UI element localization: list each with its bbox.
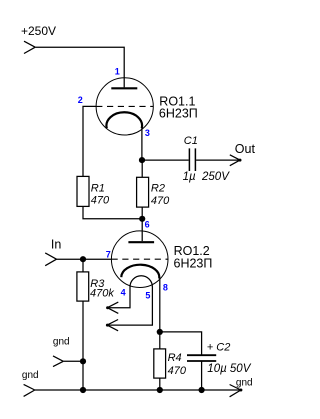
wire node3 to R2: [141, 160, 143, 177]
wire heater pin4 to arrow: [107, 287, 130, 308]
svg-text:C1: C1: [184, 135, 198, 147]
svg-text:4: 4: [121, 287, 126, 297]
capacitor C1: [189, 148, 195, 171]
cathode V1: [106, 112, 142, 128]
svg-text:gnd: gnd: [53, 336, 70, 347]
cathode V2: [121, 265, 159, 279]
wire R2 bottom to node 6: [141, 207, 143, 219]
resistor R3: [77, 272, 89, 301]
resistor R2: [137, 177, 149, 207]
svg-text:1: 1: [115, 66, 120, 76]
wire pin3 cathode down to node 3: [141, 128, 143, 161]
wire node8 to R4: [159, 332, 161, 349]
grid V1 (dashed): [96, 105, 153, 107]
svg-text:R2: R2: [151, 183, 165, 195]
wire node6 to V2 anode: [141, 219, 143, 241]
wire heater pin5 to arrow: [107, 287, 152, 326]
svg-text:+ C2: + C2: [207, 342, 231, 354]
svg-text:7: 7: [106, 250, 111, 260]
svg-text:2: 2: [78, 95, 83, 105]
svg-text:Out: Out: [235, 142, 256, 156]
wire In to V2 grid: [57, 258, 112, 260]
tube RO1.1 envelope: [96, 78, 153, 135]
svg-text:6Н23П: 6Н23П: [159, 107, 198, 121]
wire C2 bottom to rail: [201, 361, 203, 390]
wire gnd arrow to R3 column: [63, 360, 83, 362]
junction rail R3: [80, 387, 86, 393]
wire R3 bottom to ground rail: [82, 301, 84, 390]
svg-text:gnd: gnd: [22, 370, 39, 381]
heater arrow pin4: [107, 302, 118, 313]
svg-text:In: In: [51, 238, 61, 252]
gnd terminal right: [230, 385, 241, 397]
svg-text:5: 5: [145, 290, 150, 300]
node 6 junction: [139, 216, 145, 222]
svg-text:470k: 470k: [90, 288, 114, 300]
wire node to R3: [82, 259, 84, 272]
svg-text:+250V: +250V: [21, 24, 56, 38]
svg-text:1µ 250V: 1µ 250V: [183, 171, 231, 183]
node 8 junction: [157, 329, 163, 335]
wire top rail from +250V to V1 anode: [35, 47, 124, 87]
resistor R4: [154, 349, 166, 378]
heater filament V2: [130, 276, 152, 287]
heater arrow pin5: [107, 320, 118, 331]
svg-text:gnd: gnd: [236, 377, 253, 388]
wire pin8 cathode down to node 8: [159, 278, 161, 332]
junction rail R4: [157, 387, 163, 393]
terminal In: [45, 253, 56, 266]
anode plate V2: [128, 241, 154, 243]
svg-text:6Н23П: 6Н23П: [174, 257, 213, 271]
resistor R1: [77, 176, 89, 206]
wire pin2 grid to R1 column: [83, 106, 96, 176]
svg-text:3: 3: [145, 128, 150, 138]
svg-text:6: 6: [145, 219, 150, 229]
node 3 junction: [139, 157, 145, 163]
node grid junction: [80, 256, 86, 262]
svg-text:10µ 50V: 10µ 50V: [207, 363, 251, 375]
gnd terminal mid: [53, 356, 63, 367]
wire R4 bottom to rail: [159, 378, 161, 390]
gnd terminal bottom left: [24, 384, 35, 396]
grid V2 (dashed): [112, 258, 168, 260]
svg-text:470: 470: [151, 195, 170, 207]
svg-text:8: 8: [163, 282, 168, 292]
terminal +250V: [24, 41, 35, 53]
svg-text:R1: R1: [91, 182, 105, 194]
wire node8 to C2: [160, 332, 202, 355]
svg-text:R4: R4: [168, 352, 182, 364]
junction rail C2: [199, 387, 205, 393]
wire R1 bottom to node 6: [83, 206, 142, 218]
terminal Out: [230, 155, 240, 166]
wire C1 to Out: [196, 159, 240, 161]
junction gnd mid: [80, 358, 86, 364]
capacitor C2 plates: [187, 355, 216, 361]
ground rail: [35, 389, 241, 391]
anode plate V1: [111, 87, 137, 89]
tube RO1.2 envelope: [111, 231, 168, 288]
wire node3 to C1: [142, 159, 189, 161]
svg-text:470: 470: [168, 365, 187, 377]
svg-text:470: 470: [91, 195, 110, 207]
